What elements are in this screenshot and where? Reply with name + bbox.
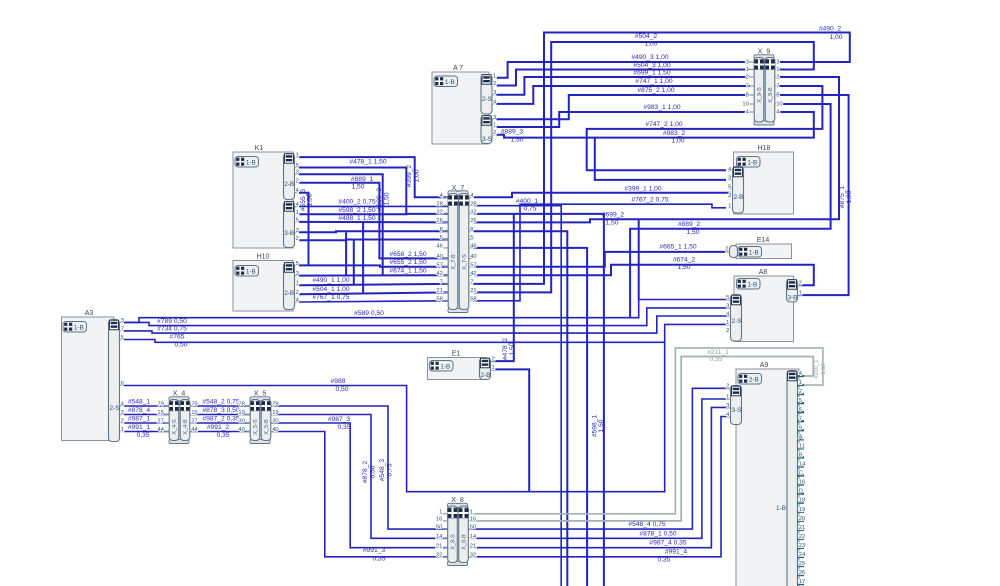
svg-text:9: 9 [799, 425, 802, 431]
pin X_8.32 [443, 556, 448, 558]
svg-text:1,00: 1,00 [644, 41, 657, 48]
svg-text:2: 2 [121, 419, 124, 425]
pin A8:2-S.5 [726, 299, 731, 301]
svg-text:#734 0,75: #734 0,75 [157, 326, 187, 333]
pin X_7.40 [444, 257, 449, 259]
pin A3:2-S.7 [120, 330, 125, 332]
pin H10:2-B.5 [295, 264, 300, 266]
svg-text:#875_1: #875_1 [839, 186, 846, 209]
svg-text:#399_1 1,00: #399_1 1,00 [624, 185, 661, 192]
pin A8:2-S.2 [726, 332, 731, 334]
wire #889_1 (K1:2 to X_7:40) [299, 183, 448, 259]
pin A3:2-S.4 [120, 405, 125, 407]
svg-text:#488_1 1,50: #488_1 1,50 [338, 215, 375, 222]
pin K1:3-B.3 [295, 231, 300, 233]
pin A9:1-B.B [798, 456, 805, 458]
svg-text:1,50: 1,50 [821, 364, 827, 375]
pin A8:2-S.4 [726, 315, 731, 317]
svg-text:14: 14 [799, 462, 806, 468]
svg-text:1-B: 1-B [749, 250, 759, 257]
svg-text:17: 17 [799, 579, 805, 585]
svg-text:K1: K1 [255, 145, 264, 152]
svg-text:3: 3 [296, 170, 299, 176]
svg-text:8: 8 [746, 93, 749, 99]
connector E14:pin2 [730, 246, 738, 258]
pin X_8.21 [443, 547, 448, 549]
svg-text:25: 25 [799, 561, 805, 567]
svg-text:1-B: 1-B [440, 364, 450, 371]
svg-text:32: 32 [436, 210, 442, 216]
svg-text:#504_3 1,00: #504_3 1,00 [633, 62, 670, 69]
svg-text:1: 1 [296, 153, 299, 159]
control unit A9 [736, 369, 799, 586]
wire #983_2 (X_9:4 to junction) [595, 112, 814, 138]
svg-text:X_9: X_9 [758, 49, 771, 56]
pin A9:1-B.24 [798, 556, 805, 558]
svg-text:#699_1 1,50: #699_1 1,50 [633, 69, 670, 76]
pin A9:1-B.5 [798, 402, 805, 404]
svg-text:32: 32 [436, 552, 442, 558]
pin A9:1-B.4 [798, 375, 805, 377]
svg-text:1: 1 [776, 67, 779, 73]
pin A3:2-S.3 [120, 414, 125, 416]
pin A7:2-S.2 [492, 85, 497, 87]
svg-text:19: 19 [238, 410, 244, 416]
wire #747_1 (A7:4 to X_9:7) [497, 86, 750, 104]
svg-text:#991_2: #991_2 [207, 424, 230, 431]
svg-text:1,50: 1,50 [510, 137, 523, 144]
pin X_9.10 [750, 103, 755, 105]
svg-text:1-B: 1-B [747, 282, 757, 289]
pin H10:2-B.1 [295, 284, 300, 286]
svg-text:X_4-B: X_4-B [183, 419, 189, 435]
wire #765 (A3:5) [124, 340, 665, 343]
svg-text:#889_3: #889_3 [501, 129, 524, 136]
svg-text:3: 3 [121, 410, 124, 416]
wire #548_1 (A3:4 to X_4:79) [124, 405, 169, 407]
svg-text:22: 22 [799, 534, 805, 540]
svg-text:8: 8 [776, 93, 779, 99]
svg-text:H18: H18 [758, 145, 771, 152]
wire #674_2 (X_7:42 to A8:3-B.2) [474, 265, 814, 286]
pin X_5.30 [246, 422, 251, 424]
svg-text:3: 3 [121, 318, 124, 324]
svg-text:46: 46 [436, 244, 442, 250]
svg-text:0,35: 0,35 [337, 424, 350, 431]
pin A8:3-B.1 [798, 294, 803, 296]
pin X_9.2 [750, 76, 755, 78]
pin A9:1-B.2 [798, 393, 805, 395]
svg-text:#991_3: #991_3 [363, 547, 386, 554]
pin A9:1-B.21 [798, 529, 805, 531]
pin A9:1-B.18 [798, 502, 805, 504]
svg-text:X_4-S: X_4-S [172, 419, 178, 435]
wire #987_4 (X_8:21 to A9:3-S.3) [468, 407, 730, 547]
svg-text:X_7-B: X_7-B [451, 254, 457, 270]
svg-text:58: 58 [470, 296, 476, 302]
pin A9:3-S.3 [726, 406, 731, 408]
svg-text:1-B: 1-B [74, 325, 84, 332]
svg-text:27: 27 [191, 419, 197, 425]
pin A7:3-S.3 [492, 118, 497, 120]
svg-text:44: 44 [157, 427, 164, 433]
pin A9:1-B.A [798, 438, 805, 440]
svg-text:#747_1 1,00: #747_1 1,00 [635, 78, 672, 85]
svg-text:#699_2: #699_2 [602, 212, 625, 219]
pin A3:2-S.6 [120, 385, 125, 387]
svg-text:5: 5 [470, 235, 473, 241]
svg-text:X_4: X_4 [173, 391, 186, 398]
svg-text:1-B: 1-B [747, 160, 757, 167]
svg-text:6: 6 [121, 381, 124, 387]
connector H10:2-B [284, 263, 295, 310]
connector A8:2-S [731, 295, 742, 342]
svg-text:2: 2 [492, 357, 495, 363]
pin X_7.4 [444, 196, 449, 198]
svg-text:6: 6 [799, 407, 802, 413]
wire #504_1 (H10:2 to X_7:21) [299, 292, 448, 294]
svg-text:A8: A8 [759, 269, 768, 276]
pin X_4.79 [165, 405, 170, 407]
wire #889_2 (X_9:10 junction) [630, 104, 831, 318]
svg-text:21: 21 [470, 288, 476, 294]
svg-text:#478_1 1,50: #478_1 1,50 [349, 159, 386, 166]
wire #789 (A3:3 to A8:3) [124, 308, 731, 326]
svg-text:8: 8 [440, 227, 443, 233]
wire #400_1 (X_7:28 down) [474, 206, 562, 586]
pin X_7.21 [444, 291, 449, 293]
svg-text:0,50: 0,50 [335, 386, 348, 393]
wire #767_1 (H10:4 to X_7:58) [299, 301, 448, 302]
pin X_7.26 [444, 221, 449, 223]
svg-text:5: 5 [296, 261, 299, 267]
wire #991_3 (X_5:40 to X_8:32) [271, 432, 448, 557]
wire #211_1 (X_8:1 to A9:1-B.1) [468, 348, 823, 514]
pin H10:2-B.4 [295, 301, 300, 303]
svg-text:7: 7 [470, 280, 473, 286]
svg-text:#655_2 1,50: #655_2 1,50 [389, 259, 426, 266]
svg-text:2: 2 [746, 75, 749, 81]
wire #504_3 (A7:2 to X_9:1) [497, 70, 750, 86]
wire wire branch K1:3-B.2 junction [353, 240, 355, 284]
wire #889_3 (A7:3-S.2 to H18:3) [497, 135, 727, 180]
wire #674_1 (H10:3 to X_7:42) [299, 274, 448, 276]
pin X_9.3 [750, 61, 755, 63]
svg-text:#478_2: #478_2 [502, 338, 509, 361]
svg-text:2-B: 2-B [284, 181, 294, 188]
pin A9:1-B.19 [798, 511, 805, 513]
connector A7:3-S [481, 116, 492, 144]
svg-text:2: 2 [296, 178, 299, 184]
svg-text:2: 2 [493, 130, 496, 136]
wire #399_1 (X_7:4 to H18:5) [474, 193, 731, 197]
svg-text:7: 7 [776, 84, 779, 90]
wire #490_1 (H10:1 to X_7:7) [299, 284, 448, 285]
wire #878_3 (X_4 to X_5) [190, 414, 250, 416]
pin X_7.28 [444, 205, 449, 207]
svg-text:18: 18 [799, 498, 805, 504]
wire #399_2 (K1:1 to X_7:4) [299, 157, 448, 197]
svg-text:16: 16 [436, 517, 442, 523]
connector A3:2-S [109, 320, 120, 442]
svg-text:20: 20 [799, 516, 805, 522]
wire #478_2 (X_7:32 to E1:2) [491, 214, 514, 361]
pin X_4.44 [165, 431, 170, 433]
inline connector X_5 [250, 397, 270, 401]
pin A8:2-S.3 [726, 307, 731, 309]
svg-text:X_9-S: X_9-S [757, 87, 763, 103]
svg-text:X_5-B: X_5-B [264, 419, 270, 435]
svg-text:2: 2 [296, 236, 299, 242]
svg-text:16: 16 [470, 517, 476, 523]
svg-text:2-S: 2-S [732, 318, 742, 325]
pin A9:1-B.23 [798, 547, 805, 549]
svg-text:1-B: 1-B [445, 79, 455, 86]
pin K1:3-B.2 [295, 239, 300, 241]
svg-text:3-S: 3-S [482, 136, 492, 143]
svg-text:30: 30 [272, 419, 278, 425]
pin X_7.57 [444, 266, 449, 268]
svg-text:21: 21 [470, 543, 476, 549]
svg-text:#991_4: #991_4 [665, 549, 688, 556]
svg-text:0,50: 0,50 [174, 342, 187, 349]
pin A7:2-S.3 [492, 94, 497, 96]
svg-text:1: 1 [492, 365, 495, 371]
svg-text:#878_4: #878_4 [128, 407, 151, 414]
pin X_7.32 [444, 213, 449, 215]
svg-text:#490_2: #490_2 [819, 25, 842, 32]
svg-text:0,50: 0,50 [369, 465, 376, 478]
svg-text:1: 1 [296, 281, 299, 287]
pin E1:2-B.2 [491, 360, 496, 362]
svg-text:21: 21 [436, 543, 442, 549]
svg-text:#504_2: #504_2 [635, 33, 658, 40]
svg-text:58: 58 [436, 296, 442, 302]
svg-text:23: 23 [799, 543, 805, 549]
svg-text:7: 7 [746, 84, 749, 90]
pin X_8.14 [443, 537, 448, 539]
svg-text:1,50: 1,50 [598, 419, 605, 432]
wire wire X_7:46 down [474, 248, 588, 586]
wire wire K1:3-B.3 to X_7:8 [299, 231, 448, 232]
pin A9:1-B.16 [798, 484, 805, 486]
pin A9:3-S.1 [726, 398, 731, 400]
svg-text:3: 3 [493, 90, 496, 96]
pin X_5.19 [246, 414, 251, 416]
svg-text:2-B: 2-B [284, 290, 294, 297]
svg-text:5: 5 [726, 295, 729, 301]
relay K1 [233, 152, 293, 248]
wire #987_3 (X_5:30 to X_8:21) [271, 423, 448, 548]
svg-text:50: 50 [436, 525, 442, 531]
pin A9:1-B.D [798, 493, 805, 495]
wire #488_1 (K1:3-B.5 to X_7:26) [299, 221, 448, 224]
pin X_7.46 [444, 247, 449, 249]
pin X_9.4 [750, 111, 755, 113]
pin A9:1-B.25 [798, 565, 805, 567]
svg-text:1: 1 [726, 394, 729, 400]
valve E1 [428, 358, 487, 380]
pin H18:2-B.5 [728, 188, 733, 190]
svg-text:10: 10 [776, 102, 782, 108]
svg-text:1,00: 1,00 [829, 34, 842, 41]
pin A8:3-B.2 [798, 284, 803, 286]
svg-text:57: 57 [436, 262, 442, 268]
svg-text:#987_4 0,35: #987_4 0,35 [649, 540, 686, 547]
pin A3:2-S.5 [120, 339, 125, 341]
pin A9:1-B.9 [798, 429, 805, 431]
svg-text:46: 46 [470, 244, 476, 250]
pin K1:2-B.2 [295, 182, 300, 184]
pin A7:3-S.1 [492, 126, 497, 128]
svg-text:B: B [799, 452, 803, 458]
svg-text:#548_1: #548_1 [128, 399, 151, 406]
svg-text:2: 2 [493, 81, 496, 87]
svg-text:#875_2 1,00: #875_2 1,00 [637, 87, 674, 94]
svg-text:27: 27 [157, 419, 163, 425]
svg-text:44: 44 [191, 427, 198, 433]
svg-text:#987_1: #987_1 [128, 416, 151, 423]
svg-text:1: 1 [470, 509, 473, 515]
pin A3:2-S.1 [120, 431, 125, 433]
svg-text:5: 5 [121, 335, 124, 341]
svg-text:1,00: 1,00 [414, 169, 421, 182]
valve E14 [736, 244, 792, 259]
svg-text:30: 30 [238, 419, 244, 425]
svg-text:#767_1 0,75: #767_1 0,75 [312, 294, 349, 301]
svg-text:1,50: 1,50 [509, 342, 516, 355]
svg-text:0,75: 0,75 [523, 206, 536, 213]
lamp H10 [233, 261, 293, 312]
svg-text:28: 28 [436, 201, 442, 207]
wire wire K1:3-B.2 to X_7:5 [299, 239, 448, 242]
svg-text:1-B: 1-B [246, 269, 256, 276]
svg-text:#589 0,50: #589 0,50 [354, 310, 384, 317]
svg-text:1: 1 [799, 291, 802, 297]
pin X_4.15 [165, 414, 170, 416]
svg-text:57: 57 [470, 262, 476, 268]
wire #699_2 (X_7:26 to X_9:2) [474, 77, 840, 222]
svg-text:#987_2 0,35: #987_2 0,35 [202, 416, 239, 423]
svg-text:3: 3 [726, 303, 729, 309]
pin X_9.1 [750, 69, 755, 71]
svg-text:50: 50 [470, 525, 476, 531]
svg-text:11: 11 [799, 443, 805, 449]
svg-text:1: 1 [121, 427, 124, 433]
svg-text:#665_1 1,50: #665_1 1,50 [659, 244, 696, 251]
pin X_8.1 [443, 513, 448, 515]
pin X_7.58 [444, 300, 449, 302]
svg-text:3: 3 [728, 175, 731, 181]
svg-text:X_7-S: X_7-S [462, 254, 468, 270]
wire #400_2 (K1:3-B.4 to X_7:28) [299, 205, 448, 207]
wire #878_1 (X_8:14 to A9:3-S.1) [468, 399, 730, 538]
pin X_8.50 [443, 528, 448, 530]
svg-text:#987_3: #987_3 [328, 416, 351, 423]
svg-text:1,50: 1,50 [605, 219, 618, 226]
svg-text:1,50: 1,50 [307, 193, 314, 206]
wire #878_4 (A3:3 to X_4:15) [124, 414, 169, 416]
wire #655_3 (K1:4 to H10:5) [299, 193, 309, 266]
svg-text:X_7: X_7 [452, 185, 465, 192]
svg-text:2-S: 2-S [110, 405, 120, 412]
svg-text:X_8-B: X_8-B [462, 534, 468, 550]
connector H18:2-B [733, 167, 744, 214]
svg-text:X_9-B: X_9-B [768, 87, 774, 103]
svg-text:X_8: X_8 [451, 497, 464, 504]
svg-text:2: 2 [799, 281, 802, 287]
svg-text:24: 24 [799, 552, 806, 558]
svg-text:1: 1 [296, 210, 299, 216]
svg-text:#878_1 0,50: #878_1 0,50 [639, 530, 676, 537]
wire #490_2 (X_7:7 to X_9:3) [474, 33, 850, 284]
pin K1:2-B.3 [295, 173, 300, 175]
svg-text:40: 40 [436, 254, 442, 260]
connector A9:3-S [731, 386, 742, 425]
pin X_9.8 [750, 94, 755, 96]
svg-text:E14: E14 [757, 237, 770, 244]
svg-text:1: 1 [728, 203, 731, 209]
svg-text:40: 40 [272, 427, 278, 433]
svg-text:3: 3 [726, 403, 729, 409]
pin A7:2-S.4 [492, 103, 497, 105]
wire #665_1 (X_7:57 to E14:2) [474, 252, 726, 267]
svg-text:A 7: A 7 [453, 65, 463, 72]
svg-text:1,00: 1,00 [846, 190, 853, 203]
wire #478_1 (K1:5 to X_7:32) [299, 168, 448, 214]
svg-text:78: 78 [238, 402, 244, 408]
connector A8:3-B [787, 280, 798, 303]
svg-text:#658_2 1,50: #658_2 1,50 [389, 251, 426, 258]
pin X_4.27 [165, 422, 170, 424]
svg-text:15: 15 [191, 410, 197, 416]
pin A9:1-B.22 [798, 538, 805, 540]
svg-text:2-B: 2-B [734, 194, 744, 201]
wire #875_2 (A7:3-S.3 to X_9:8) [497, 95, 750, 119]
svg-text:#878_2: #878_2 [362, 461, 369, 484]
wire #734 (A3:7 to A8:4) [124, 316, 731, 333]
connector A9:1-B [787, 371, 798, 586]
wire #548_2 (X_4 to X_5) [190, 405, 250, 407]
svg-text:#490_1 1,00: #490_1 1,00 [312, 277, 349, 284]
svg-text:1: 1 [493, 123, 496, 129]
pin K1:3-B.4 [295, 206, 300, 208]
pin E1:2-B.1 [491, 368, 496, 370]
pin X_7.7 [444, 283, 449, 285]
svg-text:0,35: 0,35 [372, 555, 385, 562]
inline connector X_7 [448, 191, 468, 195]
svg-text:3: 3 [493, 115, 496, 121]
svg-text:78: 78 [272, 402, 278, 408]
wire wire E1:1 down [491, 369, 530, 491]
wire #988 (A3:6 to A8:1) [124, 324, 731, 491]
pin X_9.7 [750, 85, 755, 87]
pin H18:2-B.1 [728, 207, 733, 209]
svg-text:19: 19 [272, 410, 278, 416]
svg-text:2: 2 [776, 75, 779, 81]
wire #747_2 (X_9:7 to H18:4) [587, 86, 823, 170]
pin X_7.5 [444, 239, 449, 241]
wire wire branch #699_2 junction [638, 219, 640, 299]
svg-text:21: 21 [436, 288, 442, 294]
pin A7:2-S.1 [492, 77, 497, 79]
pin A9:1-B.14 [798, 465, 805, 467]
svg-text:#767_2 0,75: #767_2 0,75 [631, 197, 668, 204]
svg-text:#210_1: #210_1 [814, 360, 820, 379]
pin A9:3-S.2 [726, 387, 731, 389]
inline connector X_9 [754, 55, 774, 59]
svg-text:3-S: 3-S [732, 407, 742, 414]
